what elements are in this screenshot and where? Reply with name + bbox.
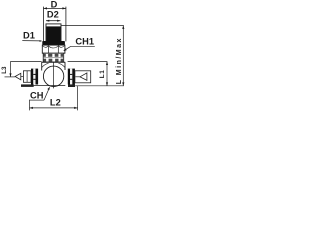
svg-text:L1: L1: [99, 70, 106, 79]
collet collar: [43, 53, 64, 62]
right port sleeve rectangle: [75, 71, 91, 83]
label CH1 leader: [63, 46, 95, 51]
label CH leader: [30, 87, 50, 100]
svg-text:D1: D1: [23, 30, 35, 40]
left port hex (black): [31, 69, 38, 85]
left port cone symbol: [15, 73, 21, 80]
knurled knob outline: [46, 24, 61, 41]
bottom extension line to L dimensions: [75, 85, 124, 87]
right port cone symbol (inside): [80, 73, 87, 81]
dimension D left extension line: [43, 7, 45, 42]
right port hex stripe: [70, 69, 72, 85]
dimension D line: [44, 7, 66, 9]
body right side: [64, 62, 66, 70]
label D1 leader: [22, 40, 42, 42]
dimension D right extension line: [65, 7, 67, 42]
svg-text:L3: L3: [1, 66, 8, 74]
left port axis stub: [21, 76, 24, 78]
dimension L2 left extension line: [29, 100, 31, 111]
left port sleeve inner line: [26, 71, 28, 83]
svg-text:CH1: CH1: [75, 37, 94, 47]
flange (black washer): [42, 41, 65, 45]
body bottom edge: [34, 85, 66, 87]
body top edge: [42, 61, 66, 63]
ball circle: [43, 66, 63, 86]
dimension L2 right extension line: [77, 86, 79, 110]
svg-text:L2: L2: [50, 97, 61, 107]
right port hex (black): [68, 69, 75, 85]
right port axis stub: [75, 76, 80, 78]
body left side: [41, 62, 43, 70]
dimension L2 line: [30, 107, 78, 109]
dimension L Min/Max line: [122, 26, 124, 86]
knurled knob black body: [46, 26, 60, 41]
dimension D2 line: [46, 20, 60, 22]
left port hex stripe: [33, 69, 35, 85]
svg-text:D: D: [51, 0, 58, 9]
left port sleeve rectangle: [23, 71, 31, 83]
dimension L1 line: [68, 62, 109, 86]
left port bottom dark bar: [21, 84, 34, 87]
svg-text:CH: CH: [30, 91, 44, 101]
hex nut: [42, 45, 65, 53]
dimension L3 line: [5, 62, 42, 77]
svg-text:L Min/Max: L Min/Max: [116, 37, 123, 84]
extension line from knob top to L Min/Max dimension: [61, 25, 123, 27]
body right shoulder arc: [59, 63, 66, 67]
svg-text:D2: D2: [47, 9, 59, 19]
body left shoulder arc: [42, 63, 49, 67]
vertical centerline: [53, 62, 55, 88]
right port bottom dark blob: [68, 84, 75, 87]
